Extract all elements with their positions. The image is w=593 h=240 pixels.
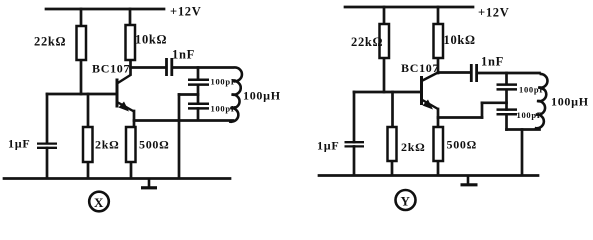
wire +12V top rail (circuit Y) xyxy=(345,6,473,9)
transistor emitter arrow (Y) xyxy=(423,100,434,110)
resistor 10k (X) xyxy=(126,25,136,60)
wire +12V top rail (circuit X) xyxy=(46,8,164,11)
svg-text:1µF: 1µF xyxy=(8,137,30,151)
inductor 100uH coil (Y) xyxy=(535,74,548,128)
wire emitter / tank bottom line xyxy=(134,119,233,122)
wire 500R bottom lead xyxy=(130,162,133,178)
resistor 10k (Y) xyxy=(434,24,444,58)
wire base line (Y) xyxy=(354,91,421,94)
wire base line xyxy=(47,93,116,96)
wire collector node to 1nF xyxy=(131,66,166,69)
wire feedback tap horizontal xyxy=(179,93,198,96)
resistor 2k (Y) xyxy=(388,127,397,161)
wire 1uF lower lead (Y) xyxy=(353,147,356,176)
wire 2k bottom lead xyxy=(87,162,90,178)
svg-text:100pF: 100pF xyxy=(211,104,237,114)
svg-text:BC107: BC107 xyxy=(92,62,130,76)
resistor 500R (X) xyxy=(126,127,136,162)
svg-text:500Ω: 500Ω xyxy=(139,138,169,152)
wire 22k bottom lead (Y) xyxy=(383,58,386,92)
wire between tank caps (Y) xyxy=(505,90,508,110)
wire 2k top lead (Y) xyxy=(391,92,394,127)
svg-text:500Ω: 500Ω xyxy=(447,138,477,152)
svg-text:22kΩ: 22kΩ xyxy=(34,35,66,49)
wire emitter lead (Y) xyxy=(437,109,440,127)
wire tank bottom (Y) xyxy=(507,128,540,131)
capacitor 100pF upper plates (X) xyxy=(188,80,209,85)
capacitor 100pF lower plates (X) xyxy=(188,104,209,109)
svg-text:100pF: 100pF xyxy=(211,77,237,87)
wire tank cap bottom lead (Y) xyxy=(505,115,508,130)
wire 10k top lead xyxy=(129,9,132,26)
svg-text:BC107: BC107 xyxy=(401,61,439,75)
inductor 100uH coil (X) xyxy=(229,67,242,121)
svg-text:X: X xyxy=(94,195,104,210)
wire 1uF upper lead xyxy=(46,94,49,143)
svg-text:+12V: +12V xyxy=(478,6,509,20)
transistor Q BC107 (Y) xyxy=(422,73,439,110)
svg-text:100pF: 100pF xyxy=(517,110,543,120)
resistor 22k (X) xyxy=(77,26,87,60)
node label Y circle xyxy=(396,190,416,210)
wire emitter lead xyxy=(133,111,136,127)
wire 2k bottom lead (Y) xyxy=(391,161,394,175)
wire 10k top lead (Y) xyxy=(437,7,440,24)
wire bottom rail (circuit Y) xyxy=(319,174,538,177)
wire tank bottom drop to rail (Y) xyxy=(521,130,524,176)
node label X circle xyxy=(89,192,109,212)
svg-text:2kΩ: 2kΩ xyxy=(401,140,425,154)
svg-text:22kΩ: 22kΩ xyxy=(351,35,383,49)
wire 500R bottom lead (Y) xyxy=(437,161,440,175)
wire feedback tap jog down (Y) xyxy=(481,103,484,118)
capacitor 1uF plates (Y) xyxy=(345,142,365,146)
wire tank cap branch top xyxy=(197,68,200,80)
capacitor 1nF plates (X) xyxy=(167,58,172,76)
wire 1uF upper lead (Y) xyxy=(353,92,356,142)
transistor emitter arrow (X) xyxy=(119,102,130,112)
wire 10k bottom lead / collector stem (Y) xyxy=(437,58,440,73)
svg-text:10kΩ: 10kΩ xyxy=(135,33,167,47)
wire 22k top lead xyxy=(80,9,83,27)
capacitor 100pF lower plates (Y) xyxy=(497,110,518,115)
wire 1uF lower lead xyxy=(46,148,49,178)
resistor 2k (X) xyxy=(83,127,93,162)
svg-text:1µF: 1µF xyxy=(317,139,339,153)
svg-text:100pF: 100pF xyxy=(519,85,545,95)
wire between tank caps xyxy=(197,85,200,103)
wire feedback tap horizontal (Y) xyxy=(482,101,507,104)
svg-text:2kΩ: 2kΩ xyxy=(95,138,119,152)
svg-text:1nF: 1nF xyxy=(172,48,195,62)
wire 22k bottom lead to base node xyxy=(80,59,83,94)
wire 1nF to tank top xyxy=(173,66,233,69)
svg-text:1nF: 1nF xyxy=(481,55,504,69)
wire 2k top lead xyxy=(87,94,90,127)
capacitor 1nF plates (Y) xyxy=(471,64,476,82)
resistor 500R (Y) xyxy=(434,127,444,161)
resistor 22k (Y) xyxy=(380,24,390,58)
ground symbol (X) xyxy=(141,179,157,188)
wire tank cap bottom lead xyxy=(197,109,200,121)
svg-text:+12V: +12V xyxy=(170,5,201,19)
svg-text:Y: Y xyxy=(400,194,410,209)
wire 22k top lead (Y) xyxy=(383,7,386,24)
ground symbol (Y) xyxy=(461,176,478,185)
svg-text:10kΩ: 10kΩ xyxy=(444,33,476,47)
wire 10k bottom lead / collector stem xyxy=(129,60,132,75)
wire 1nF to tank top (Y) xyxy=(478,72,540,75)
wire tank cap branch top (Y) xyxy=(505,73,508,84)
wire emitter line (Y) xyxy=(438,116,482,119)
svg-text:100µH: 100µH xyxy=(551,95,589,109)
capacitor 1uF plates (X) xyxy=(37,144,57,148)
svg-text:100µH: 100µH xyxy=(243,89,281,103)
capacitor 100pF upper plates (Y) xyxy=(497,85,518,90)
wire feedback tap down to ground xyxy=(178,95,181,179)
wire collector node to 1nF (Y) xyxy=(438,71,470,74)
wire bottom rail (circuit X) xyxy=(4,177,230,180)
transistor Q BC107 (X) xyxy=(117,75,134,112)
